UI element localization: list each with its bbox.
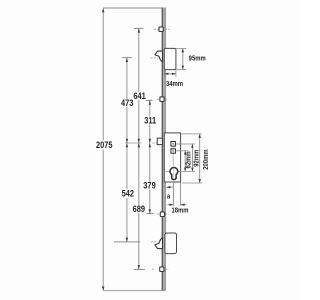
cam 1 centre line <box>154 28 159 30</box>
cam 3 (roller) <box>160 212 164 217</box>
follower square 1 <box>171 142 176 147</box>
euro cylinder keyhole <box>170 168 178 180</box>
main lock case <box>164 133 180 182</box>
hook box 1 <box>164 48 176 69</box>
200mm dimension line <box>199 134 201 182</box>
keyhole centre dashes <box>165 170 169 172</box>
svg-text:18mm: 18mm <box>171 207 188 215</box>
svg-text:a: a <box>167 193 171 201</box>
cam 2 (roller) <box>160 97 164 102</box>
svg-text:311: 311 <box>144 114 156 125</box>
svg-text:542: 542 <box>122 188 135 199</box>
cam 1 (roller) <box>159 27 163 32</box>
hook 1 centre line <box>150 57 157 59</box>
bottom extension line <box>103 290 165 292</box>
200mm top tick <box>181 133 202 135</box>
svg-text:379: 379 <box>143 180 156 191</box>
faceplate strip <box>162 8 166 291</box>
tick 379 bottom <box>147 213 154 215</box>
svg-text:34mm: 34mm <box>166 81 183 89</box>
top extension line <box>103 7 164 9</box>
follower axis line <box>172 146 174 166</box>
hook bolt 2 <box>155 238 163 249</box>
svg-text:473: 473 <box>121 97 134 108</box>
tick 689 bottom <box>134 268 145 270</box>
cam 4 centre line <box>152 268 155 270</box>
200mm bottom tick <box>182 182 202 184</box>
18mm dimension arrows <box>168 204 173 206</box>
cam 2 centre line <box>157 98 159 100</box>
spindle centre line <box>126 142 142 144</box>
backset line a (vertical, cylinder axis) <box>172 183 174 206</box>
dimension line 473/542 <box>126 58 128 242</box>
cam 4 (roller) <box>160 267 164 272</box>
tick 473 top <box>122 57 131 59</box>
95mm ticks <box>176 47 186 49</box>
svg-text:689: 689 <box>133 203 146 214</box>
dimension line 311/379 <box>149 100 151 213</box>
svg-text:95mm: 95mm <box>189 55 206 63</box>
svg-text:2075: 2075 <box>96 139 113 150</box>
svg-text:200mm: 200mm <box>203 149 211 169</box>
62/92 bottom tick <box>179 170 196 172</box>
62mm dimension line <box>184 151 186 171</box>
svg-text:641: 641 <box>133 90 146 101</box>
hook bolt 1 <box>155 51 163 62</box>
34mm dimension line <box>165 73 176 75</box>
34mm extension ticks <box>163 70 165 77</box>
case rear line <box>180 183 182 206</box>
62mm top tick <box>176 150 188 152</box>
92mm dimension line <box>191 144 193 171</box>
hook box 2 <box>165 233 177 254</box>
tick 641 top <box>134 27 143 29</box>
dimension line 641/689 <box>138 28 140 269</box>
follower square 2 <box>171 149 176 153</box>
latch bolt <box>157 138 162 145</box>
cam 3 centre line <box>157 213 160 215</box>
a dimension arrow <box>167 186 173 188</box>
hook 2 centre line <box>151 241 157 243</box>
92mm top tick <box>176 143 195 145</box>
svg-text:62mm: 62mm <box>185 151 193 168</box>
95mm dimension line <box>182 49 184 69</box>
dimension line 2075 <box>102 9 104 290</box>
tick 542 bottom (long bar) <box>114 241 140 243</box>
tick 311 top <box>146 99 153 101</box>
